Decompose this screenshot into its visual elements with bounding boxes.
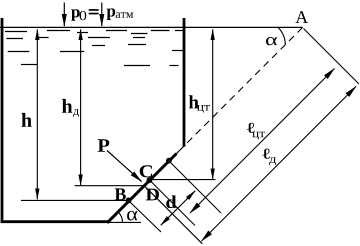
dimension d (gate diameter): [161, 191, 195, 225]
label h_d: [62, 99, 72, 113]
node B dot: [126, 198, 132, 204]
pressure arrow p0 left: [63, 3, 65, 27]
dashed extension of gate plane up to point A: [186, 28, 303, 145]
witness line from B: [130, 202, 161, 232]
label h: [22, 113, 32, 127]
dimension l_d: [202, 87, 357, 242]
free surface line out to point A: [0, 26, 303, 28]
node dot at gate top edge: [166, 158, 172, 164]
label A: [295, 11, 308, 23]
witness line from C: [151, 182, 195, 226]
label alpha (top, at A): [266, 37, 277, 45]
leader line from D: [75, 185, 145, 187]
water surface hatching: [5, 31, 183, 66]
label C: [140, 165, 152, 177]
dimension l_ct: [190, 69, 335, 214]
tank right wall: [183, 18, 186, 147]
label l_d: [262, 149, 270, 159]
dimension h_d: [80, 29, 82, 185]
angle alpha arc at bottom corner: [118, 212, 122, 222]
label p_atm: [107, 8, 116, 20]
tank left wall: [1, 18, 4, 223]
leader line from C: [150, 179, 216, 181]
witness line from gate top edge: [170, 162, 221, 213]
inclined wall thin continuation to right wall: [176, 145, 186, 155]
angle alpha arc at A: [278, 27, 285, 45]
angle reference line at bottom corner: [108, 221, 141, 223]
inclined bottom wall (gate plane, thick): [107, 154, 176, 223]
dimension h_ct: [212, 29, 214, 179]
label D (center of pressure): [146, 189, 159, 201]
label B: [115, 188, 126, 200]
dimension h: [36, 29, 38, 199]
label P: [98, 139, 110, 151]
label alpha (bottom): [127, 211, 137, 221]
node C dot: [147, 177, 153, 183]
pressure arrow p0 right: [101, 3, 103, 27]
leader line from B: [21, 199, 129, 201]
tank bottom wall: [1, 220, 109, 223]
label d: [166, 195, 176, 208]
label h_ct: [189, 95, 199, 108]
equals sign: [89, 9, 99, 11]
witness line from D: [145, 187, 202, 244]
label p0: [71, 9, 80, 21]
force P arrow: [107, 151, 142, 182]
label l_ct: [247, 123, 255, 133]
witness line from A: [304, 29, 360, 85]
